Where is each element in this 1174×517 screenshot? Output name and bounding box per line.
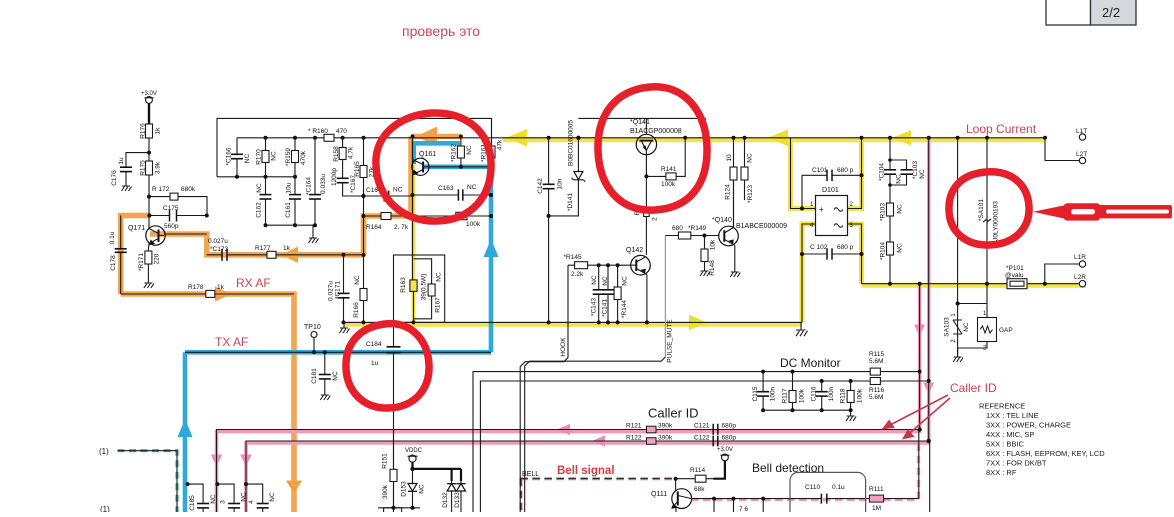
capacitor C143 NC: [591, 265, 605, 322]
svg-text:*D141: *D141: [567, 193, 574, 211]
posistor P101 @valu: [1005, 265, 1027, 289]
svg-text:*C143: *C143: [591, 298, 598, 316]
label REFERENCE block: [979, 402, 1105, 477]
capacitor C171 0.027u: [328, 255, 350, 323]
resistor R172 680k: [149, 186, 207, 216]
svg-text:*R145: *R145: [564, 254, 582, 261]
svg-text:100n: 100n: [828, 386, 835, 401]
node Q142 base row dots: [597, 263, 620, 267]
node R164 line junction: [362, 214, 366, 218]
wire pink down arrow x928 upper: [914, 325, 925, 337]
svg-text:4XX : MIC, SP: 4XX : MIC, SP: [986, 430, 1034, 439]
capacitor C184 1u: [366, 322, 401, 512]
test point TP10: [304, 324, 321, 354]
svg-text:R175: R175: [140, 160, 147, 176]
svg-text:1k: 1k: [283, 245, 291, 252]
transistor Q142: [626, 247, 650, 322]
svg-text:R117: R117: [782, 388, 789, 403]
svg-text:220: 220: [154, 253, 161, 264]
resistor R115 5.6M: [869, 351, 884, 375]
svg-text:39(0.5W): 39(0.5W): [421, 274, 428, 301]
svg-text:RX AF: RX AF: [236, 276, 271, 290]
capacitor C178 0.1u: [109, 216, 127, 295]
svg-text:TP10: TP10: [304, 324, 321, 331]
resistor R116 5.6M: [869, 378, 884, 402]
transistor Q171: [128, 216, 207, 250]
svg-text:R115: R115: [869, 351, 884, 358]
capacitor C173 0.027u: [207, 238, 267, 261]
capacitor C163 NC: [413, 184, 492, 201]
svg-text:D101: D101: [822, 187, 839, 194]
wire DC monitor upper line: [473, 372, 920, 512]
svg-text:*R149: *R149: [688, 225, 706, 232]
svg-text:5XX : BBIC: 5XX : BBIC: [986, 440, 1025, 449]
svg-text:R141: R141: [661, 166, 677, 173]
capacitor C161 10u: [285, 177, 301, 225]
power VDDC: [405, 448, 423, 469]
svg-text:NC: NC: [332, 371, 339, 381]
annotation red circle around Q161: [376, 113, 491, 221]
wire yellow arrow on bus x510: [506, 129, 527, 147]
svg-text:C163: C163: [438, 185, 454, 192]
capacitor C141 NC: [602, 265, 615, 322]
svg-text:Caller ID: Caller ID: [648, 406, 699, 421]
wire VDDC thick branch: [413, 469, 462, 481]
wire yellow from D101 pin3 to L2R bus: [848, 224, 1087, 285]
wire Bell signal dashed pink vertical x521: [519, 479, 522, 512]
annotation red arrow to upper pink line: [884, 395, 949, 428]
resistor R104 NC: [880, 242, 904, 284]
wire orange arrow right of R178: [215, 286, 231, 301]
wire Caller ID pink lower line: [246, 138, 929, 512]
svg-text:C181: C181: [311, 368, 318, 384]
node R149 right junction: [703, 234, 707, 238]
capacitor C176 1u: [111, 153, 149, 186]
wire yellow branch to D101 pin2: [848, 138, 862, 209]
wire DC monitor lower line: [480, 381, 928, 512]
svg-text:B1ABCE000009: B1ABCE000009: [736, 223, 787, 230]
table page box 2/2: [1046, 0, 1136, 25]
svg-text:R148: R148: [709, 260, 716, 276]
node lower right bus dots: [888, 282, 1047, 286]
svg-text:C185: C185: [189, 495, 196, 511]
svg-text:C115: C115: [752, 386, 759, 401]
node lower bus dots: [342, 320, 649, 324]
capacitor C183 NC: [215, 482, 247, 512]
svg-text:Bell detection: Bell detection: [752, 461, 824, 475]
svg-text:4.7k: 4.7k: [348, 146, 355, 159]
resistor R111 1M: [869, 486, 884, 512]
svg-text:VDDC: VDDC: [405, 448, 423, 454]
node DC monitor junction dots: [761, 370, 931, 444]
svg-text:*C103: *C103: [912, 161, 919, 179]
svg-text:R121: R121: [626, 423, 642, 430]
power +3.0V top left: [141, 91, 157, 124]
svg-text:2. 7k: 2. 7k: [394, 224, 409, 231]
svg-text:1200p: 1200p: [331, 168, 338, 186]
capacitor C181 NC: [311, 350, 339, 395]
wire lower right yellow bus black line: [862, 283, 1080, 285]
svg-text:+3.0V: +3.0V: [717, 447, 733, 453]
svg-text:3: 3: [220, 500, 227, 504]
resistor R163 39(0.5W): [400, 274, 428, 301]
resistor R170 NC: [256, 138, 278, 177]
wire DC monitor bottom rail: [761, 408, 853, 412]
resistor R166 NC: [353, 255, 367, 322]
node 100k row dots: [411, 214, 494, 218]
capacitor C121 680p: [694, 423, 736, 435]
svg-text:NC: NC: [896, 174, 903, 184]
svg-text:R151: R151: [382, 453, 389, 469]
resistor R151 390k: [382, 430, 398, 508]
svg-text:NC: NC: [354, 275, 361, 285]
svg-text:*C173: *C173: [210, 246, 228, 253]
wire pink down arrow x216: [211, 455, 223, 467]
node C171 top junction: [342, 253, 346, 257]
svg-text:Q171: Q171: [128, 225, 145, 232]
svg-text:*R104: *R104: [880, 242, 887, 260]
svg-text:*R171: *R171: [138, 253, 145, 271]
connector pin R? 2: [634, 176, 659, 255]
svg-text:NC: NC: [622, 276, 629, 286]
wire bottom junction row R151/D153: [378, 506, 420, 510]
svg-text:7 6: 7 6: [739, 506, 748, 512]
node rail dots: [264, 223, 318, 227]
svg-text:2: 2: [652, 217, 659, 221]
wire pink left arrow on upper line: [557, 424, 570, 436]
wire orange vertical x412: [408, 137, 414, 217]
svg-text:NC: NC: [419, 484, 426, 494]
svg-text:2.2k: 2.2k: [571, 271, 584, 278]
ground right end of lower bus: [796, 322, 808, 336]
wire TX AF row black line: [185, 351, 491, 353]
wire SA103 feed line: [956, 138, 987, 306]
svg-text:C142: C142: [537, 178, 544, 194]
svg-text:C122: C122: [694, 435, 710, 442]
svg-text:C162: C162: [256, 202, 263, 218]
svg-text:1k: 1k: [155, 127, 162, 135]
wire Bell signal dashed pink row y479: [520, 477, 675, 480]
svg-text:680k: 680k: [181, 186, 196, 193]
wire pink down arrow x928 lower: [923, 383, 934, 395]
capacitor C165 NC: [364, 187, 413, 202]
node VDDC junction: [410, 467, 414, 471]
svg-text:NC: NC: [269, 492, 276, 502]
wire yellow branch to D101 pin1: [791, 138, 816, 209]
svg-text:7XX : FOR DK/BT: 7XX : FOR DK/BT: [986, 459, 1047, 468]
svg-text:680 p: 680 p: [837, 244, 854, 251]
node bus junction dots: [264, 135, 1048, 141]
svg-text:100k: 100k: [661, 181, 676, 188]
capacitor C103 NC: [888, 158, 926, 187]
svg-text:@valu: @valu: [1005, 272, 1024, 279]
wire mid top line over Q141: [578, 118, 705, 137]
resistor R141 100k: [644, 138, 685, 188]
transistor Q111: [651, 479, 692, 512]
svg-text:NC: NC: [919, 169, 926, 179]
resistor R160 470: [308, 128, 347, 141]
node orange corner R166 junction: [362, 253, 366, 257]
svg-text:10u: 10u: [286, 182, 293, 193]
svg-text:*R159: *R159: [285, 148, 292, 166]
svg-text:100k: 100k: [857, 388, 864, 403]
terminal L2R: [1074, 274, 1086, 287]
resistor R123 NC: [741, 136, 754, 203]
svg-text:R158: R158: [333, 146, 340, 162]
svg-text:Q142: Q142: [626, 247, 643, 254]
surge arrester SA103: [944, 304, 971, 356]
wire Caller ID pink upper line: [217, 284, 920, 512]
svg-text:C184: C184: [366, 341, 382, 348]
wire orange arrow at R177: [281, 247, 298, 263]
svg-text:*C141: *C141: [602, 299, 609, 317]
transistor Q141 B1ACGP000008: [630, 118, 682, 176]
capacitor C104 NC: [879, 138, 903, 203]
terminal L1R: [1045, 254, 1086, 284]
ground below DC monitor rail: [846, 410, 856, 421]
resistor R177 1k: [255, 245, 364, 258]
svg-text:R124: R124: [725, 184, 732, 200]
svg-text:Loop Current: Loop Current: [966, 122, 1037, 136]
svg-text:*Q140: *Q140: [712, 217, 732, 224]
resistor R144 NC: [614, 265, 628, 322]
wire blue TX AF row y352: [185, 350, 491, 355]
annotation red circle around C184: [346, 324, 429, 408]
annotation red circle around Q141: [598, 87, 707, 210]
svg-text:R164: R164: [366, 224, 382, 231]
svg-text:68k: 68k: [694, 486, 705, 493]
svg-text:проверь это: проверь это: [402, 23, 480, 39]
resistor R149 680: [665, 225, 718, 239]
terminal L1T: [1076, 128, 1087, 140]
svg-text:4: 4: [248, 500, 255, 504]
svg-text:R166: R166: [353, 302, 360, 318]
ground below R148: [700, 271, 710, 276]
node R165 bottom junction: [361, 194, 365, 198]
resistor R122 390k: [626, 435, 673, 445]
svg-text:NC: NC: [244, 154, 251, 164]
svg-text:REFERENCE: REFERENCE: [979, 402, 1025, 411]
node bell Q111 base junction: [674, 477, 678, 481]
annotation red circle around SA101: [949, 172, 1029, 245]
resistor R124 10: [725, 138, 738, 227]
wire orange C173 segment: [150, 234, 364, 255]
capacitor C175 560p: [149, 197, 207, 230]
resistor R158 4.7k: [333, 138, 355, 179]
ground left end of lower bus: [340, 322, 350, 333]
wire blue up arrow x185: [178, 419, 193, 437]
svg-text:B1ACGP000008: B1ACGP000008: [630, 128, 682, 135]
svg-text:C16: C16: [366, 187, 378, 194]
wire orange R178 row: [121, 294, 294, 512]
node base row dots: [459, 165, 493, 169]
box cut component bottom edge: [384, 508, 402, 514]
svg-text:100k: 100k: [799, 388, 806, 403]
wire main horizontal bus y138: [237, 137, 1045, 139]
svg-text:BELL: BELL: [522, 471, 539, 478]
wire blue up arrow x491: [484, 239, 499, 257]
resistor R114 68k: [676, 467, 714, 493]
svg-text:J0LY0000193: J0LY0000193: [993, 201, 1000, 241]
svg-text:NC: NC: [256, 183, 263, 193]
wire RX AF orange top segment: [411, 134, 461, 140]
capacitor C116 100n: [811, 381, 836, 410]
wire yellow arrow on lower bus: [689, 315, 707, 331]
node C175 ends: [147, 214, 208, 218]
capacitor C166 NC: [226, 138, 252, 177]
gap arrester GAP box: [958, 304, 1013, 352]
svg-text:NC: NC: [897, 204, 904, 214]
svg-text:*R144: *R144: [621, 300, 628, 318]
svg-text:*P101: *P101: [1006, 265, 1024, 272]
svg-text:C175: C175: [163, 205, 179, 212]
svg-text:8XX : RF: 8XX : RF: [986, 468, 1017, 477]
svg-text:NC: NC: [591, 275, 598, 285]
capacitor C102 680p: [800, 244, 864, 260]
svg-text:*SA101: *SA101: [978, 199, 985, 221]
svg-text:C178: C178: [110, 255, 117, 271]
svg-text:PULSE_MUTE: PULSE_MUTE: [667, 319, 674, 363]
ground below C176: [122, 186, 132, 191]
wire yellow vertical through R163: [412, 163, 416, 323]
node Q111 row dots: [712, 497, 765, 501]
net PULSE_MUTE: [525, 236, 674, 513]
resistor 100k on Q161 row: [413, 212, 492, 228]
svg-text:390k: 390k: [658, 435, 673, 442]
wire Q161 base row black: [432, 166, 491, 168]
svg-text:*C164: *C164: [306, 177, 313, 195]
resistor R159 470k: [285, 138, 307, 177]
svg-text:*C166: *C166: [226, 147, 233, 165]
svg-text:NC: NC: [436, 272, 443, 282]
svg-text:L1R: L1R: [1074, 254, 1086, 261]
resistor R118 100k: [840, 381, 864, 410]
wire stubs below Q111 row: [714, 499, 763, 512]
svg-text:Bell signal: Bell signal: [557, 465, 615, 477]
wire bottom rail of left cluster: [266, 224, 316, 226]
svg-text:100k: 100k: [466, 221, 481, 228]
wire bell dashed black overlay row y479: [520, 479, 675, 512]
svg-text:*R123: *R123: [747, 185, 754, 203]
svg-text:390k: 390k: [382, 484, 389, 499]
svg-text:GAP: GAP: [999, 327, 1013, 334]
svg-text:1u: 1u: [371, 360, 379, 367]
svg-text:3.9k: 3.9k: [155, 161, 162, 174]
svg-text:Q161: Q161: [419, 151, 436, 158]
svg-text:C116: C116: [811, 386, 818, 401]
wire black under green dashed net (1): [118, 451, 178, 512]
wire blue base row y167: [423, 165, 491, 170]
wire orange Q171 collector node: [121, 216, 150, 295]
svg-text:0.033u: 0.033u: [320, 174, 327, 194]
svg-text:L2R: L2R: [1074, 274, 1086, 281]
svg-text:* R160: * R160: [308, 128, 328, 135]
node at R176 bottom: [147, 151, 151, 155]
svg-text:0.1u: 0.1u: [832, 484, 845, 491]
svg-text:B0BC01600005: B0BC01600005: [568, 120, 575, 166]
svg-text:560p: 560p: [164, 223, 179, 230]
box Bell detection rounded: [790, 472, 866, 517]
surge arrester SA101 J0LY0000193: [978, 138, 1000, 284]
svg-text:1M: 1M: [872, 505, 881, 512]
wire Loop Current yellow main bus: [503, 137, 1045, 142]
svg-text:R163: R163: [400, 277, 407, 293]
svg-text:NC: NC: [271, 151, 278, 161]
svg-text:*R103: *R103: [880, 203, 887, 221]
svg-text:10k: 10k: [710, 239, 717, 250]
wire lower yellow bus black line: [344, 321, 802, 323]
resistor R178 1k: [121, 284, 294, 297]
svg-text:390k: 390k: [658, 423, 673, 430]
svg-text:C161: C161: [285, 202, 292, 218]
svg-text:C110: C110: [805, 484, 820, 491]
diode D133: [454, 481, 466, 512]
svg-text:NC: NC: [963, 322, 970, 332]
svg-text:NC: NC: [602, 276, 609, 286]
svg-text:R167: R167: [435, 297, 442, 313]
svg-text:1XX : TEL LINE: 1XX : TEL LINE: [986, 411, 1039, 420]
svg-text:5.6M: 5.6M: [869, 394, 883, 401]
resistor R164 2.7k: [364, 213, 413, 232]
capacitor C115 100n: [752, 372, 777, 411]
resistor R165 27k: [354, 138, 376, 255]
resistor R161 47k: [481, 118, 504, 166]
diode bridge D101: [791, 138, 862, 323]
svg-text:680 p: 680 p: [837, 167, 854, 174]
node C163 dots: [411, 193, 494, 197]
svg-text:R178: R178: [188, 284, 204, 291]
svg-text:HOOK: HOOK: [560, 337, 567, 357]
annotation red arrow to lower pink line: [904, 398, 951, 438]
wire yellow arrow on bus x770: [768, 129, 788, 146]
svg-text:D132: D132: [442, 492, 449, 508]
svg-text:6XX : FLASH, EEPROM, KEY, LCD: 6XX : FLASH, EEPROM, KEY, LCD: [986, 449, 1105, 458]
power +3.0V at R114: [713, 447, 733, 479]
wire TX AF blue top bracket at Q161: [414, 143, 460, 164]
svg-text:10n: 10n: [557, 178, 564, 189]
svg-text:100n: 100n: [770, 386, 777, 401]
capacitor C122 680p: [694, 435, 736, 447]
resistor R145 2.2k: [564, 254, 631, 278]
wire Q111 output row y498: [692, 430, 919, 499]
svg-text:R118: R118: [840, 388, 847, 403]
svg-text:R170: R170: [256, 149, 263, 165]
svg-text:DC Monitor: DC Monitor: [780, 356, 841, 370]
svg-text:R111: R111: [869, 486, 884, 493]
wire left cluster lower line: [217, 176, 295, 178]
svg-text:C101: C101: [812, 167, 828, 174]
svg-text:R122: R122: [626, 435, 642, 442]
svg-text:1u: 1u: [118, 157, 125, 165]
svg-text:470k: 470k: [300, 150, 307, 165]
diode D141 zener: [547, 138, 586, 218]
resistor R121 390k: [626, 423, 673, 433]
wire blue vertical x185: [183, 352, 188, 512]
resistor R167 NC: [414, 259, 443, 319]
capacitor C185 NC: [186, 482, 217, 512]
svg-text:0.1u: 0.1u: [109, 231, 116, 244]
svg-text:2/2: 2/2: [1102, 5, 1120, 20]
ground below Q140: [730, 272, 740, 277]
svg-text:R116: R116: [869, 387, 884, 394]
capacitor C162 NC: [256, 177, 272, 225]
wire Bell dashed pink row y500 to x918: [691, 444, 919, 499]
svg-text:3XX : POWER, CHARGE: 3XX : POWER, CHARGE: [986, 421, 1071, 430]
svg-text:R114: R114: [690, 467, 705, 474]
svg-text:(1): (1): [99, 447, 109, 456]
resistor R117 100k: [782, 372, 806, 411]
wire top-left box line: [217, 118, 492, 176]
